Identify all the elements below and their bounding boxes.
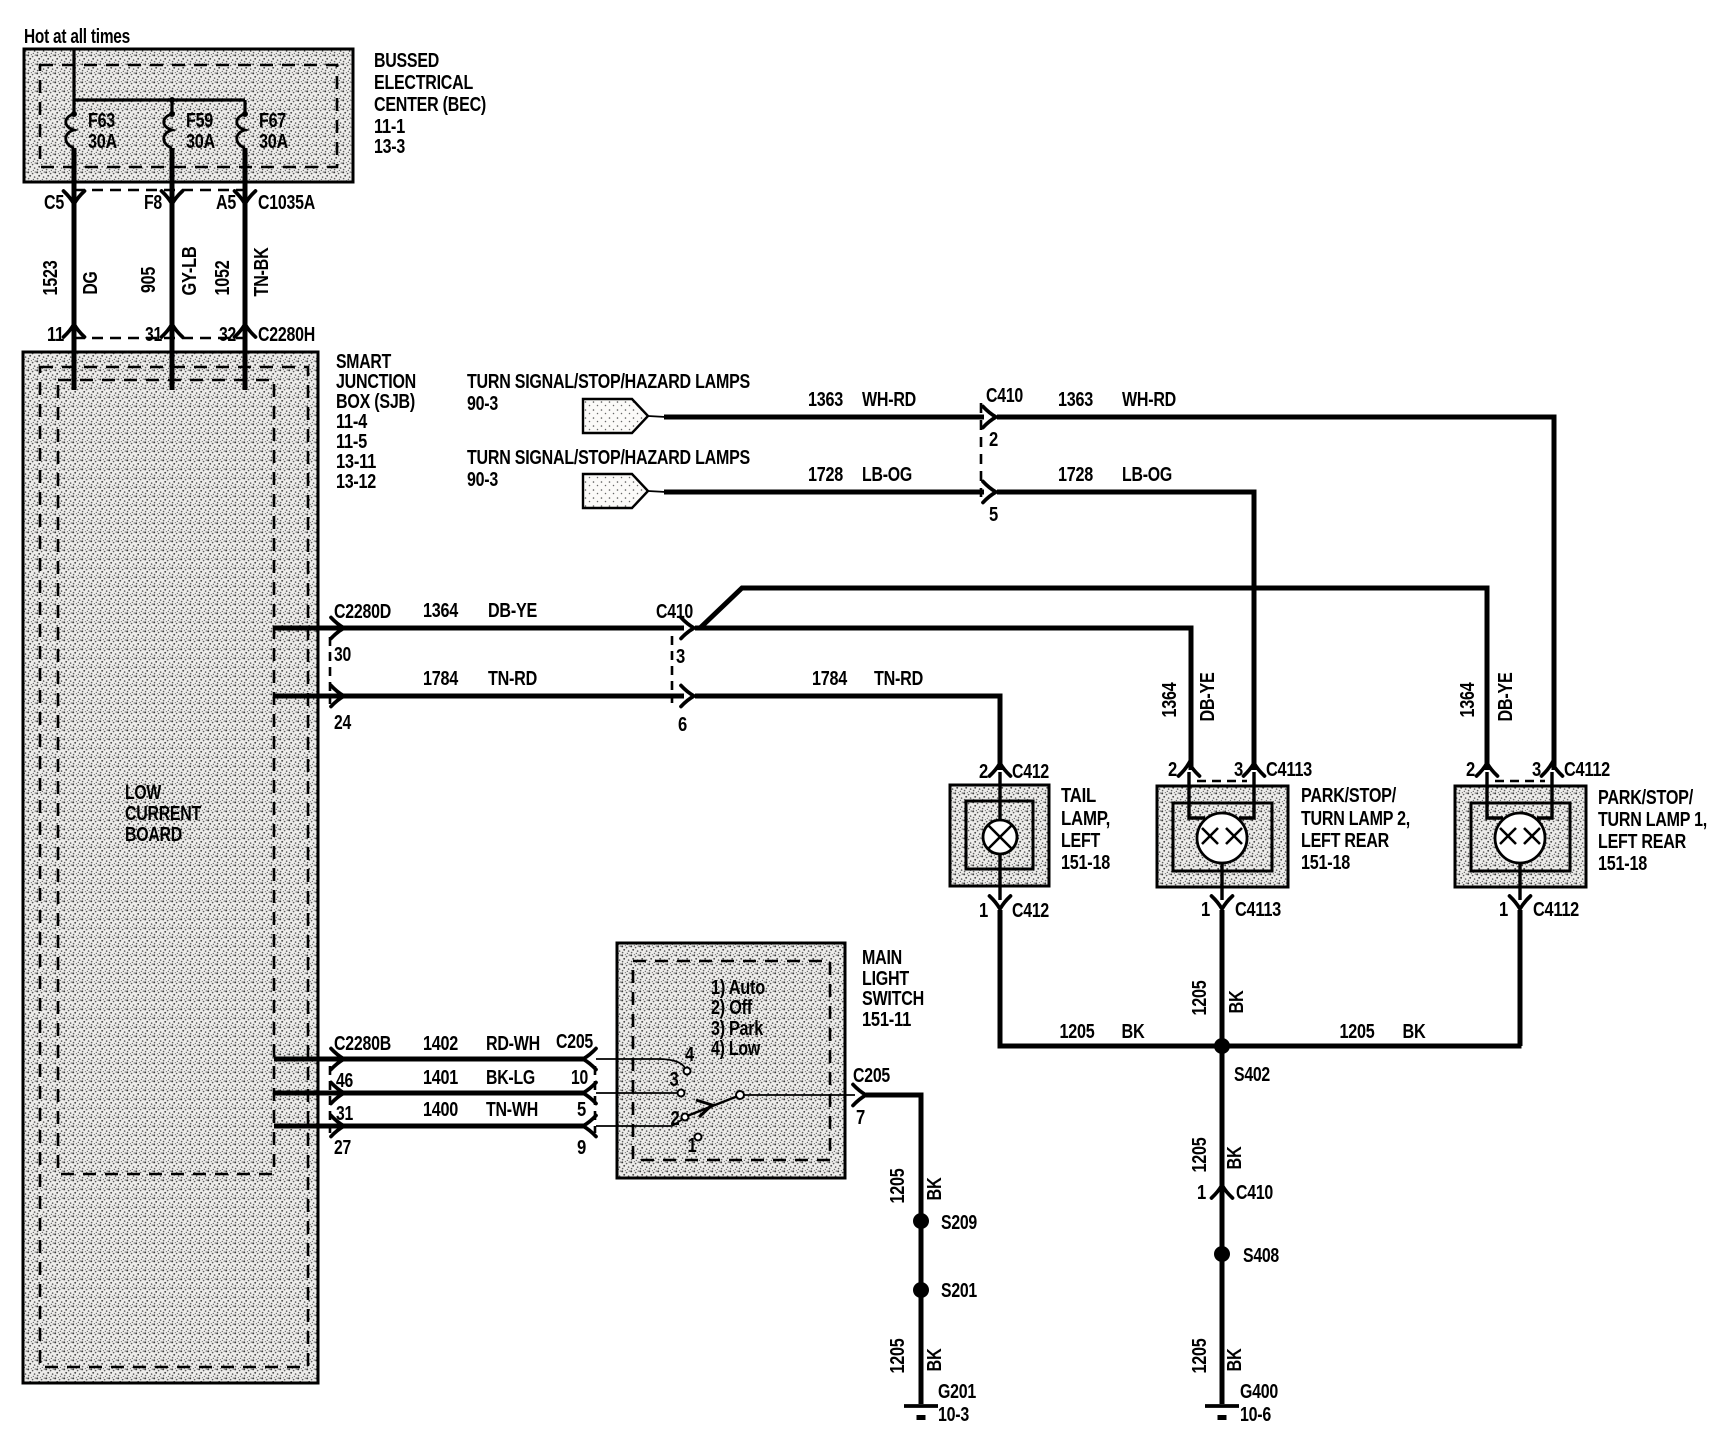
svg-text:CENTER (BEC): CENTER (BEC) <box>374 94 486 116</box>
svg-text:TURN SIGNAL/STOP/HAZARD LAMPS: TURN SIGNAL/STOP/HAZARD LAMPS <box>467 371 750 393</box>
svg-text:LB-OG: LB-OG <box>862 464 912 486</box>
splice S201 <box>913 1280 977 1302</box>
svg-text:11-4: 11-4 <box>336 411 368 433</box>
svg-text:G201: G201 <box>938 1381 976 1403</box>
module: SMART JUNCTION BOX (SJB) <box>23 352 318 1383</box>
svg-text:C4113: C4113 <box>1266 759 1312 781</box>
wire: BEC bus <box>74 100 245 114</box>
pin 11 of C2280H <box>47 324 85 346</box>
svg-text:SWITCH: SWITCH <box>862 988 924 1010</box>
svg-text:90-3: 90-3 <box>467 393 498 415</box>
wire label 1364 DB-YE (vertical, lamp1) <box>1457 673 1517 722</box>
pin 24 of SJB C2280D <box>331 686 352 735</box>
ground G400 <box>1205 1381 1278 1426</box>
pin 1 of C4112 <box>1499 896 1579 921</box>
wire label 1363 WH-RD <box>808 389 916 411</box>
svg-text:F67: F67 <box>259 110 286 132</box>
pin 2 of C412 <box>979 761 1011 783</box>
pin C5 of C1035A <box>44 191 85 214</box>
svg-text:BK-LG: BK-LG <box>486 1067 535 1089</box>
svg-text:1205: 1205 <box>1340 1021 1375 1043</box>
svg-text:13-11: 13-11 <box>336 451 376 473</box>
svg-text:32: 32 <box>219 324 236 346</box>
SJB outer dashed outline <box>40 367 308 1367</box>
svg-text:C4113: C4113 <box>1235 899 1281 921</box>
switch name label <box>862 947 924 1031</box>
wire 1784 TN-RD (C410 to tail lamp) <box>695 696 1000 770</box>
lamp: PARK/STOP/TURN LAMP 1 LEFT REAR <box>1455 772 1586 900</box>
pin 3 of C4112 <box>1532 759 1563 781</box>
svg-text:1784: 1784 <box>423 668 459 690</box>
svg-text:151-18: 151-18 <box>1301 852 1350 874</box>
svg-text:PARK/STOP/: PARK/STOP/ <box>1598 787 1694 809</box>
wire label 1400 TN-WH <box>423 1099 538 1121</box>
switch wire to contact 2 <box>596 1119 683 1126</box>
svg-text:1205: 1205 <box>887 1168 909 1203</box>
svg-text:C412: C412 <box>1012 761 1049 783</box>
wire label 1784 TN-RD (right) <box>812 668 923 690</box>
svg-text:BK: BK <box>1403 1021 1427 1043</box>
svg-text:LEFT REAR: LEFT REAR <box>1301 830 1390 852</box>
svg-text:1363: 1363 <box>808 389 843 411</box>
wire label 1052 TN-BK <box>212 247 273 297</box>
splice S209 <box>913 1212 977 1234</box>
lamp: TAIL LAMP LEFT <box>950 772 1049 900</box>
switch output wire <box>744 1094 855 1096</box>
svg-text:C2280D: C2280D <box>334 601 391 623</box>
svg-text:F8: F8 <box>144 192 162 214</box>
svg-text:6: 6 <box>678 714 687 736</box>
off-page arrow symbol (2) <box>583 474 666 508</box>
svg-text:151-18: 151-18 <box>1598 853 1647 875</box>
wire 1364 DB-YE (C410 to lamps) <box>695 588 1487 770</box>
wire label 1205 BK (below S402) <box>1189 1137 1246 1172</box>
lamp 2 label <box>1301 785 1410 874</box>
connector C410 name (mid) <box>656 601 693 623</box>
fuse F59 30A <box>164 110 215 153</box>
svg-text:C2280B: C2280B <box>334 1033 391 1055</box>
svg-text:905: 905 <box>138 267 160 293</box>
svg-text:TURN LAMP 2,: TURN LAMP 2, <box>1301 808 1410 830</box>
pin 31 of SJB C2280B <box>331 1083 353 1126</box>
C4113 dashed pin link <box>1197 780 1247 783</box>
svg-text:1205: 1205 <box>887 1338 909 1373</box>
svg-text:BOX (SJB): BOX (SJB) <box>336 391 415 413</box>
wire 1363 WH-RD (C410 to lamp) <box>997 417 1554 770</box>
connector C205 dashed line <box>594 1066 597 1133</box>
svg-text:S402: S402 <box>1234 1064 1270 1086</box>
svg-text:JUNCTION: JUNCTION <box>336 371 416 393</box>
svg-text:G400: G400 <box>1240 1381 1278 1403</box>
connector C410 dashed line (pins 2/5) <box>980 403 983 497</box>
pin 2 of C4112 <box>1466 759 1498 781</box>
svg-text:7: 7 <box>856 1107 865 1129</box>
fuse F67 30A <box>237 110 288 153</box>
svg-text:10-3: 10-3 <box>938 1404 969 1426</box>
svg-text:PARK/STOP/: PARK/STOP/ <box>1301 785 1397 807</box>
svg-text:C205: C205 <box>556 1031 593 1053</box>
svg-text:11-5: 11-5 <box>336 431 367 453</box>
off-page ref: TURN SIGNAL/STOP/HAZARD LAMPS (1) <box>467 371 750 415</box>
wire 1205 BK (S408 to G400) <box>1220 1254 1225 1404</box>
svg-text:1205: 1205 <box>1060 1021 1095 1043</box>
svg-text:31: 31 <box>145 324 162 346</box>
svg-text:1205: 1205 <box>1189 1338 1211 1373</box>
wire 1363 WH-RD (to C410) <box>664 415 984 420</box>
pin 6 of C410 <box>678 686 694 737</box>
svg-text:10: 10 <box>571 1067 588 1089</box>
wire: fuse F67 output <box>243 148 248 390</box>
svg-text:3: 3 <box>670 1069 679 1091</box>
wire label 1363 WH-RD (right) <box>1058 389 1176 411</box>
svg-text:1402: 1402 <box>423 1033 458 1055</box>
svg-text:1728: 1728 <box>1058 464 1093 486</box>
net: Hot at all times label <box>24 26 130 48</box>
svg-text:2: 2 <box>979 761 988 783</box>
pin 5 of C205 <box>577 1099 596 1137</box>
switch wiper arm <box>687 1096 738 1117</box>
svg-text:TURN LAMP 1,: TURN LAMP 1, <box>1598 809 1707 831</box>
junction dots on bus <box>71 97 248 117</box>
svg-text:C412: C412 <box>1012 900 1049 922</box>
svg-text:F63: F63 <box>88 110 115 132</box>
svg-text:2: 2 <box>1168 759 1177 781</box>
svg-text:CURRENT: CURRENT <box>125 803 201 825</box>
wire 1784 TN-RD (SJB to C410) <box>274 694 684 699</box>
svg-text:1: 1 <box>979 900 988 922</box>
pin C2280D of SJB (pin 30) <box>331 601 391 666</box>
switch inner dashed outline <box>633 961 830 1160</box>
svg-text:1401: 1401 <box>423 1067 458 1089</box>
svg-text:1400: 1400 <box>423 1099 458 1121</box>
wire label 905 GY-LB <box>138 247 201 296</box>
pin A5 of C1035A <box>216 191 256 214</box>
connector C2280H dashed line <box>74 337 246 340</box>
svg-text:30: 30 <box>334 644 351 666</box>
connector C1035A dashed line <box>74 189 246 192</box>
svg-text:1363: 1363 <box>1058 389 1093 411</box>
svg-text:SMART: SMART <box>336 351 391 373</box>
BEC inner dashed outline <box>40 65 337 167</box>
switch contact 1 label <box>688 1135 697 1157</box>
svg-text:C205: C205 <box>853 1065 890 1087</box>
switch position legend <box>711 977 765 1060</box>
connector C4112 name (top) <box>1564 759 1610 781</box>
svg-text:9: 9 <box>577 1137 586 1159</box>
wire label 1784 TN-RD <box>423 668 537 690</box>
svg-text:30A: 30A <box>88 131 117 153</box>
switch wire to contact 4 <box>596 1059 685 1068</box>
wire: hot feed into BEC <box>72 49 75 114</box>
pin 10 of C205 <box>571 1067 596 1104</box>
svg-text:11-1: 11-1 <box>374 116 405 138</box>
svg-text:S209: S209 <box>941 1212 977 1234</box>
C4112 dashed pin link <box>1495 780 1545 783</box>
wire 1402 RD-WH <box>274 1057 585 1062</box>
svg-text:TN-RD: TN-RD <box>874 668 923 690</box>
pin 2 of C4113 <box>1168 759 1200 781</box>
pin 32 of C2280H <box>219 324 256 346</box>
svg-text:1364: 1364 <box>423 600 459 622</box>
wire BK from lamp 1 <box>1518 910 1523 1046</box>
wire 1728 LB-OG (to C410) <box>664 490 984 495</box>
off-page ref: TURN SIGNAL/STOP/HAZARD LAMPS (2) <box>467 447 750 491</box>
svg-text:WH-RD: WH-RD <box>1122 389 1176 411</box>
pin 3 of C4113 <box>1234 759 1265 781</box>
svg-text:11: 11 <box>47 324 64 346</box>
svg-text:1205: 1205 <box>1189 980 1211 1015</box>
svg-text:LOW: LOW <box>125 782 161 804</box>
svg-text:BK: BK <box>1224 1146 1246 1170</box>
svg-text:30A: 30A <box>259 131 288 153</box>
svg-text:13-12: 13-12 <box>336 471 376 493</box>
pin F8 of C1035A <box>144 191 183 214</box>
svg-text:C4112: C4112 <box>1564 759 1610 781</box>
svg-text:LEFT REAR: LEFT REAR <box>1598 831 1687 853</box>
wire label 1364 DB-YE <box>423 600 537 622</box>
svg-text:RD-WH: RD-WH <box>486 1033 540 1055</box>
svg-text:1784: 1784 <box>812 668 848 690</box>
svg-text:TN-WH: TN-WH <box>486 1099 538 1121</box>
svg-text:1: 1 <box>1197 1182 1206 1204</box>
svg-text:BK: BK <box>924 1348 946 1372</box>
svg-text:3) Park: 3) Park <box>711 1018 764 1040</box>
svg-text:27: 27 <box>334 1137 351 1159</box>
svg-text:TN-BK: TN-BK <box>251 247 273 297</box>
ground G201 <box>904 1381 976 1426</box>
svg-text:TAIL: TAIL <box>1061 785 1096 807</box>
svg-text:1364: 1364 <box>1457 682 1479 718</box>
svg-text:1052: 1052 <box>212 260 234 295</box>
svg-text:ELECTRICAL: ELECTRICAL <box>374 72 473 94</box>
wire label 1728 LB-OG (right) <box>1058 464 1172 486</box>
connector C410 name (top) <box>986 385 1023 407</box>
BEC name label <box>374 50 486 158</box>
svg-text:BK: BK <box>1226 990 1248 1014</box>
wire label 1205 BK (above S402) <box>1189 980 1248 1015</box>
svg-text:C410: C410 <box>986 385 1023 407</box>
wire BK from tail lamp <box>998 910 1003 1046</box>
wire: fuse F59 output <box>170 148 175 390</box>
svg-text:GY-LB: GY-LB <box>179 247 201 296</box>
svg-text:24: 24 <box>334 712 352 734</box>
svg-text:C410: C410 <box>1236 1182 1273 1204</box>
svg-text:2: 2 <box>989 429 998 451</box>
wire label 1205 BK (above G201) <box>887 1338 946 1373</box>
connector C1035A name <box>258 192 315 214</box>
wire 1401 BK-LG <box>274 1091 585 1096</box>
LOW CURRENT BOARD label <box>125 782 201 846</box>
connector C412 name (top) <box>1012 761 1049 783</box>
wire label 1728 LB-OG <box>808 464 912 486</box>
switch wire to contact 3 <box>596 1092 677 1094</box>
svg-text:1523: 1523 <box>40 260 62 295</box>
svg-text:1364: 1364 <box>1159 682 1181 718</box>
connector C205 name (left) <box>556 1031 593 1053</box>
svg-text:151-18: 151-18 <box>1061 852 1110 874</box>
switch contact 3 <box>678 1090 685 1097</box>
svg-text:2: 2 <box>1466 759 1475 781</box>
pin 1 of C410 <box>1197 1182 1273 1204</box>
pin 7 of C205 <box>853 1065 890 1129</box>
svg-text:LB-OG: LB-OG <box>1122 464 1172 486</box>
pin C2280B of SJB (pin 46) <box>331 1033 391 1092</box>
pin 27 of SJB C2280B <box>331 1116 351 1160</box>
svg-text:Hot at all times: Hot at all times <box>24 26 130 48</box>
lamp 1 label <box>1598 787 1707 875</box>
svg-text:A5: A5 <box>216 192 236 214</box>
pin 5 of C410 <box>983 482 998 527</box>
svg-text:1: 1 <box>1201 899 1210 921</box>
wire 1364 DB-YE (SJB to C410) <box>274 626 684 631</box>
wire label 1523 DG <box>40 260 102 295</box>
svg-text:F59: F59 <box>186 110 213 132</box>
svg-text:BK: BK <box>1224 1348 1246 1372</box>
svg-text:3: 3 <box>676 646 685 668</box>
SJB low current board dashed outline <box>58 380 274 1174</box>
switch contact 1 <box>695 1134 702 1141</box>
wire 1205 BK ground bus <box>998 1044 1522 1046</box>
svg-text:1205: 1205 <box>1189 1137 1211 1172</box>
fuse F63 30A <box>66 110 117 153</box>
svg-text:C5: C5 <box>44 192 64 214</box>
svg-text:151-11: 151-11 <box>862 1009 911 1031</box>
svg-text:3: 3 <box>1234 759 1243 781</box>
pin 4 of C205 <box>583 1044 695 1070</box>
svg-text:10-6: 10-6 <box>1240 1404 1271 1426</box>
svg-text:3: 3 <box>1532 759 1541 781</box>
splice S408 <box>1214 1245 1279 1267</box>
wire label 1205 BK (left segment) <box>1060 1021 1146 1043</box>
svg-text:S201: S201 <box>941 1280 977 1302</box>
svg-text:2: 2 <box>671 1108 680 1130</box>
wire 1205 BK (switch to S209) <box>866 1095 921 1404</box>
svg-text:C2280H: C2280H <box>258 324 315 346</box>
svg-text:S408: S408 <box>1243 1245 1279 1267</box>
pin 9 of C205 <box>577 1137 586 1159</box>
off-page arrow symbol (1) <box>583 399 666 433</box>
wire label 1364 DB-YE (vertical, lamp2) <box>1159 673 1219 722</box>
svg-text:4: 4 <box>685 1044 695 1066</box>
tail lamp label <box>1061 785 1110 874</box>
switch: MAIN LIGHT SWITCH box <box>617 943 845 1178</box>
svg-text:TN-RD: TN-RD <box>488 668 537 690</box>
svg-text:2) Off: 2) Off <box>711 997 753 1019</box>
connector C2280H name <box>258 324 315 346</box>
pin 1 of C4113 <box>1201 896 1281 921</box>
svg-text:4) Low: 4) Low <box>711 1038 761 1060</box>
svg-text:30A: 30A <box>186 131 215 153</box>
pin 1 of C412 <box>979 896 1049 922</box>
wire 1728 LB-OG (C410 to lamp) <box>997 492 1254 770</box>
wire label 1402 RD-WH <box>423 1033 540 1055</box>
svg-text:BK: BK <box>1122 1021 1146 1043</box>
wire label 1205 BK (above G400) <box>1189 1338 1246 1373</box>
switch pivot <box>736 1091 744 1099</box>
lamp: PARK/STOP/TURN LAMP 2 LEFT REAR <box>1157 772 1288 900</box>
svg-text:DB-YE: DB-YE <box>488 600 537 622</box>
pin 2 of C410 <box>983 407 998 452</box>
power box: BUSSED ELECTRICAL CENTER (BEC) <box>24 49 353 182</box>
pin 31 of C2280H <box>145 324 183 346</box>
svg-text:WH-RD: WH-RD <box>862 389 916 411</box>
connector C2280D dashed line <box>329 637 332 704</box>
switch contact 2 label <box>671 1108 680 1130</box>
SJB name label <box>336 351 416 493</box>
connector C410 dashed line (pins 3/6) <box>671 636 674 703</box>
svg-text:13-3: 13-3 <box>374 136 405 158</box>
svg-text:DB-YE: DB-YE <box>1197 673 1219 722</box>
connector C4113 name (top) <box>1266 759 1312 781</box>
wire BK from lamp 2 <box>1220 910 1225 1046</box>
svg-text:LAMP,: LAMP, <box>1061 808 1110 830</box>
wire label 1401 BK-LG <box>423 1067 535 1089</box>
svg-text:BK: BK <box>924 1177 946 1201</box>
wire label 1205 BK (right segment) <box>1340 1021 1427 1043</box>
svg-text:1) Auto: 1) Auto <box>711 977 765 999</box>
svg-text:C4112: C4112 <box>1533 899 1579 921</box>
wire 1205 BK (S402 to C410) <box>1220 1046 1225 1192</box>
svg-text:TURN SIGNAL/STOP/HAZARD LAMPS: TURN SIGNAL/STOP/HAZARD LAMPS <box>467 447 750 469</box>
svg-text:BOARD: BOARD <box>125 824 182 846</box>
svg-text:1: 1 <box>1499 899 1508 921</box>
svg-text:C410: C410 <box>656 601 693 623</box>
switch contact 3 label <box>670 1069 679 1091</box>
connector C2280B dashed line <box>329 1066 332 1133</box>
wire 1400 TN-WH <box>274 1124 585 1129</box>
pin 3 of C410 <box>676 618 694 669</box>
wire: fuse F63 output <box>72 148 77 390</box>
svg-text:DG: DG <box>80 272 102 295</box>
wire 1205 BK (C410 to S408) <box>1220 1192 1225 1254</box>
svg-text:MAIN: MAIN <box>862 947 902 969</box>
svg-text:5: 5 <box>577 1099 586 1121</box>
svg-text:LIGHT: LIGHT <box>862 968 909 990</box>
splice S402 <box>1214 1038 1270 1086</box>
switch contact 4 <box>684 1068 691 1075</box>
svg-text:1728: 1728 <box>808 464 843 486</box>
svg-text:BUSSED: BUSSED <box>374 50 439 72</box>
svg-text:5: 5 <box>989 504 998 526</box>
svg-text:DB-YE: DB-YE <box>1495 673 1517 722</box>
svg-text:LEFT: LEFT <box>1061 830 1100 852</box>
wire label 1205 BK (above S209) <box>887 1168 946 1203</box>
svg-text:90-3: 90-3 <box>467 469 498 491</box>
svg-text:C1035A: C1035A <box>258 192 315 214</box>
switch contact 2 <box>682 1114 689 1121</box>
